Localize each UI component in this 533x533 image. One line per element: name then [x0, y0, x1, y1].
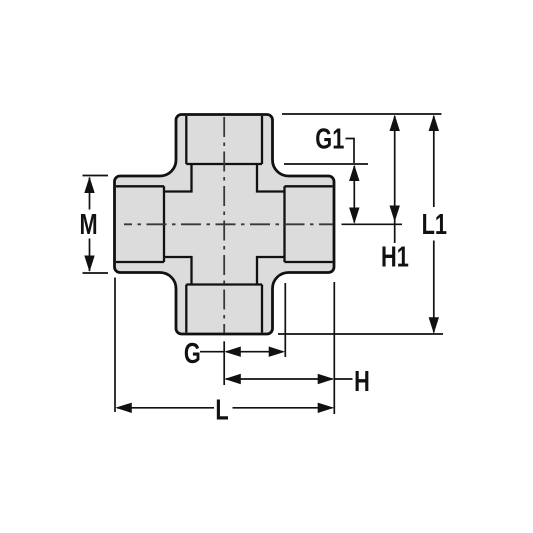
- L1 dim line: [433, 116, 435, 333]
- bottom-right ext line: [278, 333, 443, 335]
- cross fitting body: [115, 115, 335, 335]
- G left / right: [224, 347, 240, 357]
- labels (condensed): [80, 124, 447, 427]
- bore corners: [164, 164, 192, 192]
- arrowheads: [84, 115, 439, 413]
- M ext lines: [83, 176, 109, 274]
- H1 up / down: [390, 115, 400, 131]
- M dim line: [89, 178, 91, 272]
- G1 leader: [346, 139, 355, 164]
- top ext line: [282, 113, 442, 115]
- left face ext line: [114, 278, 116, 413]
- G ext line: [284, 283, 286, 357]
- socket walls bottom: [186, 285, 262, 333]
- L dim: [117, 407, 333, 409]
- G1 dim line: [353, 166, 355, 223]
- socket-bottom ext line (G1): [284, 163, 368, 165]
- L left / right: [115, 403, 131, 413]
- socket walls left: [116, 186, 164, 262]
- svg-text:H1: H1: [381, 242, 409, 274]
- L1 up / down: [429, 115, 439, 131]
- H left / right: [224, 374, 240, 384]
- H1 dim line: [394, 116, 396, 243]
- H dim + leader: [226, 378, 353, 380]
- socket walls top: [116, 116, 333, 333]
- centerlines: [124, 117, 333, 333]
- svg-text:L1: L1: [422, 209, 447, 241]
- G leader + dim: [200, 351, 283, 353]
- svg-text:H: H: [354, 366, 370, 398]
- svg-text:L: L: [215, 395, 228, 427]
- right face ext line: [333, 282, 335, 414]
- centerline solid extensions: [224, 224, 402, 385]
- svg-text:G: G: [184, 338, 201, 370]
- svg-text:G1: G1: [315, 124, 344, 156]
- G1 up / down: [349, 165, 359, 181]
- socket walls right: [285, 186, 333, 262]
- dimension lines: [83, 114, 444, 414]
- svg-text:M: M: [80, 209, 98, 241]
- M up / down: [84, 177, 94, 193]
